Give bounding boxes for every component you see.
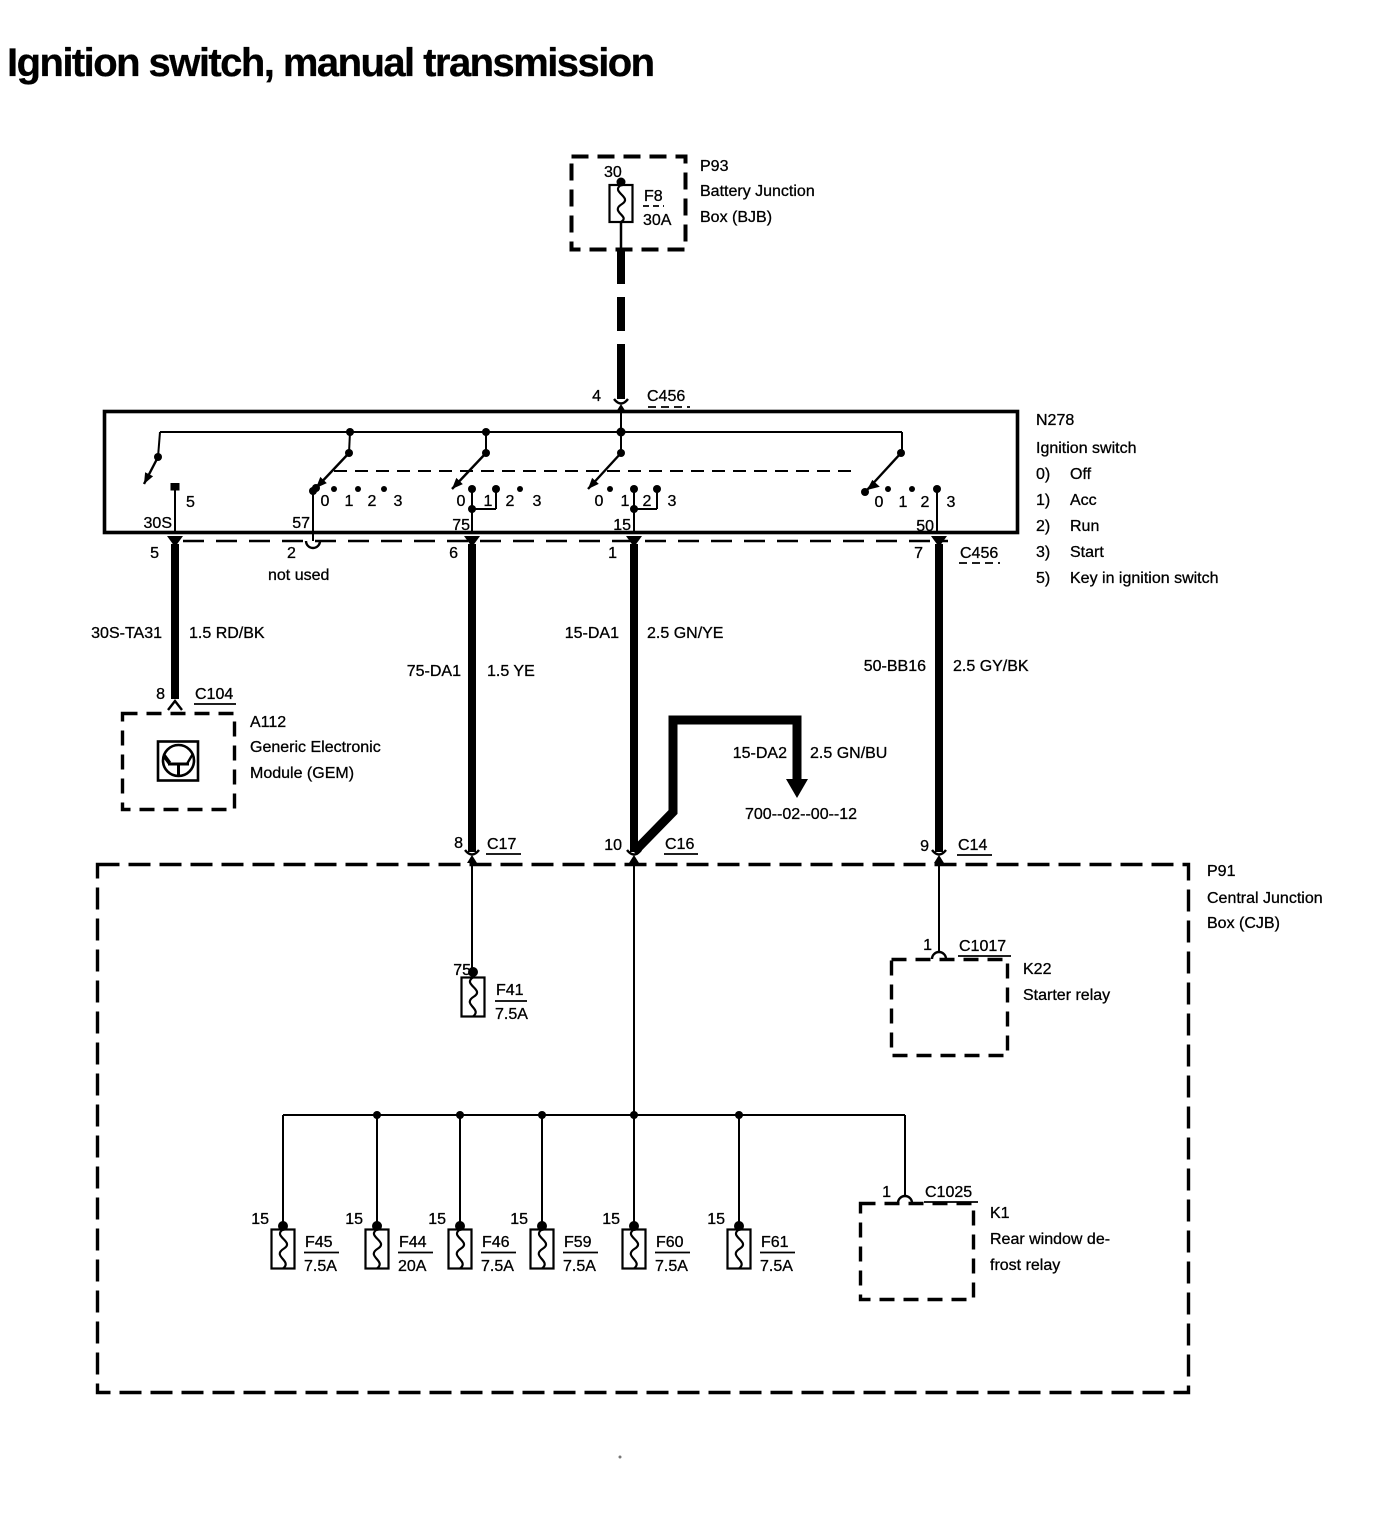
svg-text:7.5A: 7.5A xyxy=(760,1258,793,1275)
svg-text:F59: F59 xyxy=(564,1234,592,1251)
svg-text:15: 15 xyxy=(428,1211,446,1228)
svg-text:7.5A: 7.5A xyxy=(304,1258,337,1275)
svg-text:1): 1) xyxy=(1036,492,1050,509)
svg-text:15-DA2: 15-DA2 xyxy=(733,745,787,762)
svg-text:Generic Electronic: Generic Electronic xyxy=(250,739,381,756)
svg-text:2.5 GN/BU: 2.5 GN/BU xyxy=(810,745,887,762)
svg-text:1: 1 xyxy=(608,545,617,562)
svg-text:2): 2) xyxy=(1036,518,1050,535)
svg-text:1.5 YE: 1.5 YE xyxy=(487,663,535,680)
svg-text:0: 0 xyxy=(321,493,330,510)
svg-text:C456: C456 xyxy=(960,545,998,562)
svg-text:15: 15 xyxy=(613,517,631,534)
svg-text:F41: F41 xyxy=(496,982,524,999)
svg-text:Battery Junction: Battery Junction xyxy=(700,183,815,200)
svg-text:50-BB16: 50-BB16 xyxy=(864,658,926,675)
svg-text:2: 2 xyxy=(368,493,377,510)
svg-text:3: 3 xyxy=(947,494,956,511)
svg-text:2.5 GN/YE: 2.5 GN/YE xyxy=(647,625,723,642)
svg-text:30S-TA31: 30S-TA31 xyxy=(91,625,162,642)
svg-text:K1: K1 xyxy=(990,1205,1010,1222)
svg-text:A112: A112 xyxy=(250,714,286,731)
svg-text:1: 1 xyxy=(345,493,354,510)
svg-text:15: 15 xyxy=(602,1211,620,1228)
svg-text:4: 4 xyxy=(592,388,601,405)
svg-text:F45: F45 xyxy=(305,1234,333,1251)
svg-text:Start: Start xyxy=(1070,544,1104,561)
svg-text:Ignition switch, manual transm: Ignition switch, manual transmission xyxy=(7,41,654,85)
svg-text:7.5A: 7.5A xyxy=(563,1258,596,1275)
svg-text:7.5A: 7.5A xyxy=(655,1258,688,1275)
svg-text:75: 75 xyxy=(452,517,470,534)
svg-text:75-DA1: 75-DA1 xyxy=(407,663,461,680)
svg-text:5: 5 xyxy=(150,545,159,562)
svg-text:F61: F61 xyxy=(761,1234,789,1251)
svg-text:30A: 30A xyxy=(643,212,672,229)
svg-text:C104: C104 xyxy=(195,686,233,703)
svg-text:C1025: C1025 xyxy=(925,1184,972,1201)
svg-text:2.5 GY/BK: 2.5 GY/BK xyxy=(953,658,1029,675)
svg-text:3): 3) xyxy=(1036,544,1050,561)
svg-text:C16: C16 xyxy=(665,836,694,853)
svg-text:1: 1 xyxy=(899,494,908,511)
svg-text:2: 2 xyxy=(921,494,930,511)
svg-text:Module (GEM): Module (GEM) xyxy=(250,765,354,782)
svg-text:Rear window de-: Rear window de- xyxy=(990,1231,1110,1248)
svg-text:7.5A: 7.5A xyxy=(495,1006,528,1023)
svg-text:F46: F46 xyxy=(482,1234,510,1251)
svg-text:Central Junction: Central Junction xyxy=(1207,890,1323,907)
svg-text:2: 2 xyxy=(287,545,296,562)
svg-text:15: 15 xyxy=(510,1211,528,1228)
svg-text:C1017: C1017 xyxy=(959,938,1006,955)
svg-text:Run: Run xyxy=(1070,518,1099,535)
svg-text:1: 1 xyxy=(882,1184,891,1201)
svg-text:3: 3 xyxy=(394,493,403,510)
svg-text:0: 0 xyxy=(457,493,466,510)
svg-text:30S: 30S xyxy=(144,515,172,532)
svg-text:15: 15 xyxy=(345,1211,363,1228)
svg-text:Box (BJB): Box (BJB) xyxy=(700,209,772,226)
svg-text:C456: C456 xyxy=(647,388,685,405)
svg-text:F44: F44 xyxy=(399,1234,427,1251)
svg-text:57: 57 xyxy=(292,515,310,532)
svg-text:K22: K22 xyxy=(1023,961,1052,978)
svg-text:0: 0 xyxy=(875,494,884,511)
svg-text:2: 2 xyxy=(643,493,652,510)
svg-text:15-DA1: 15-DA1 xyxy=(565,625,619,642)
svg-text:Acc: Acc xyxy=(1070,492,1097,509)
svg-text:8: 8 xyxy=(156,686,165,703)
svg-text:C14: C14 xyxy=(958,837,987,854)
svg-text:N278: N278 xyxy=(1036,412,1074,429)
svg-text:2: 2 xyxy=(506,493,515,510)
svg-text:8: 8 xyxy=(454,835,463,852)
svg-text:C17: C17 xyxy=(487,836,516,853)
svg-text:20A: 20A xyxy=(398,1258,427,1275)
svg-text:1: 1 xyxy=(923,937,932,954)
svg-text:15: 15 xyxy=(251,1211,269,1228)
svg-text:15: 15 xyxy=(707,1211,725,1228)
svg-text:P93: P93 xyxy=(700,158,729,175)
svg-text:5: 5 xyxy=(186,494,195,511)
svg-text:frost relay: frost relay xyxy=(990,1257,1060,1274)
svg-text:3: 3 xyxy=(533,493,542,510)
svg-text:Ignition switch: Ignition switch xyxy=(1036,440,1137,457)
svg-text:700--02--00--12: 700--02--00--12 xyxy=(745,806,857,823)
svg-text:0: 0 xyxy=(595,493,604,510)
svg-text:9: 9 xyxy=(920,838,929,855)
svg-text:P91: P91 xyxy=(1207,863,1236,880)
svg-text:1: 1 xyxy=(484,493,493,510)
svg-text:Starter relay: Starter relay xyxy=(1023,987,1110,1004)
svg-text:F60: F60 xyxy=(656,1234,684,1251)
svg-text:F8: F8 xyxy=(644,188,663,205)
svg-text:10: 10 xyxy=(604,837,622,854)
svg-text:0): 0) xyxy=(1036,466,1050,483)
svg-text:6: 6 xyxy=(449,545,458,562)
svg-text:3: 3 xyxy=(668,493,677,510)
svg-text:not used: not used xyxy=(268,567,329,584)
svg-text:7: 7 xyxy=(914,545,923,562)
svg-text:1: 1 xyxy=(621,493,630,510)
svg-text:7.5A: 7.5A xyxy=(481,1258,514,1275)
svg-text:5): 5) xyxy=(1036,570,1050,587)
svg-text:Box (CJB): Box (CJB) xyxy=(1207,915,1280,932)
svg-text:1.5 RD/BK: 1.5 RD/BK xyxy=(189,625,265,642)
svg-text:Key in ignition switch: Key in ignition switch xyxy=(1070,570,1219,587)
svg-text:50: 50 xyxy=(916,518,934,535)
svg-text:30: 30 xyxy=(604,164,622,181)
svg-text:Off: Off xyxy=(1070,466,1092,483)
